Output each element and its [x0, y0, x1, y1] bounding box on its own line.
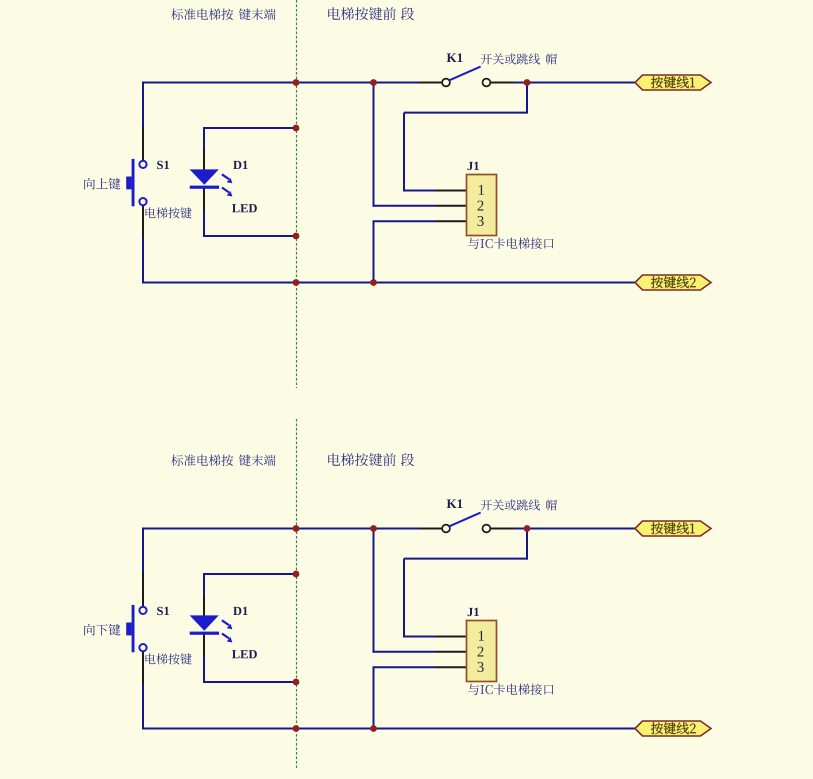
wire pin3 to bottom rail vertical [373, 667, 375, 728]
switch S1 pin stub top [142, 572, 144, 607]
label K1 [447, 53, 463, 62]
switch K1 blade [449, 513, 480, 527]
switch S1 pin stub bottom [142, 651, 144, 684]
connector J1 pin number 1 [479, 185, 484, 195]
switch K1 pin stub right [490, 82, 514, 84]
label LED [232, 650, 257, 658]
wire LED branch top horizontal [203, 573, 297, 575]
wire top rail left segment [142, 528, 420, 530]
connector J1 body [467, 621, 497, 682]
wire LED branch bottom vertical [203, 656, 205, 683]
wire J1 pin2 horizontal [373, 205, 437, 207]
switch S1 plunger [126, 177, 131, 190]
junction top rail at boundary [293, 525, 300, 532]
port 按键线2 [635, 275, 711, 290]
label J1 [468, 608, 479, 616]
junction top rail / pin2 branch [370, 525, 377, 532]
port 按键线2 text [651, 276, 696, 288]
wire J1 pin3 horizontal [373, 220, 437, 222]
wire K1 to J1 horizontal [404, 112, 528, 114]
LED D1 emission arrow 2 [222, 634, 233, 643]
switch S1 top contact circle [139, 161, 146, 168]
junction top rail / K1 output [524, 79, 531, 86]
connector J1 pin number 3 [478, 216, 484, 226]
label 电梯按键 [146, 653, 192, 664]
connector J1 body [467, 175, 497, 236]
connector J1 pin 1 stub [436, 190, 466, 192]
LED D1 anode pin stub [203, 149, 205, 170]
label 电梯按键 [146, 207, 192, 218]
junction LED branch top at boundary [293, 571, 300, 578]
connector J1 pin 2 stub [436, 651, 466, 653]
LED D1 emission arrow 2 [222, 188, 233, 197]
junction bottom rail at boundary [293, 279, 300, 286]
connector J1 pin number 2 [477, 647, 483, 657]
switch S1 bottom contact circle [139, 198, 146, 205]
LED D1 emission arrow 1 [222, 174, 233, 183]
junction LED branch top at boundary [293, 125, 300, 132]
wire bottom rail [142, 728, 636, 730]
wire LED branch top horizontal [203, 127, 297, 129]
wire J1 pin3 horizontal [373, 666, 437, 668]
net label 电梯按键前段 (sheet top) [328, 7, 396, 20]
switch K1 right contact circle [483, 525, 491, 533]
switch K1 pin stub left [420, 82, 442, 84]
switch S1 bottom contact circle [139, 644, 146, 651]
connector J1 pin 1 stub [436, 636, 466, 638]
label LED [232, 204, 257, 212]
net label 标准电梯按键末端 (sheet bottom) [171, 454, 233, 466]
switch K1 pin stub left [420, 528, 442, 530]
wire K1 to J1 vertical drop [526, 529, 528, 560]
label D1 [233, 607, 247, 615]
net label 电梯按键前段 (sheet bottom) [328, 453, 396, 466]
connector J1 pin number 2 [477, 201, 483, 211]
junction bottom rail / pin3 branch [370, 725, 377, 732]
junction top rail / pin2 branch [370, 79, 377, 86]
wire pin3 to bottom rail vertical [373, 221, 375, 282]
port 按键线1 text [651, 522, 695, 534]
junction bottom rail / pin3 branch [370, 279, 377, 286]
switch K1 right contact circle [483, 79, 491, 87]
wire K1 to J1 horizontal [404, 558, 528, 560]
wire J1 pin2 horizontal [373, 651, 437, 653]
LED D1 emission arrow 1 [222, 620, 233, 629]
junction top rail at boundary [293, 79, 300, 86]
junction top rail / K1 output [524, 525, 531, 532]
junction bottom rail at boundary [293, 725, 300, 732]
LED D1 cathode pin stub [203, 634, 205, 656]
wire top rail to pin2 vertical [373, 529, 375, 653]
switch S1 top contact circle [139, 607, 146, 614]
LED D1 cathode bar [190, 186, 219, 189]
wire J1 pin1 horizontal [404, 190, 436, 192]
wire J1 pin1 horizontal [404, 636, 436, 638]
LED D1 triangle [190, 169, 219, 184]
switch K1 pin stub right [490, 528, 514, 530]
net label 标准电梯按键末端 (sheet top) [171, 8, 233, 20]
label J1 [468, 162, 479, 170]
wire LED branch top vertical [203, 573, 205, 595]
wire left vertical upper [142, 528, 144, 573]
wire bottom rail [142, 282, 636, 284]
switch S1 actuator bar [132, 159, 135, 206]
wire top rail left segment [142, 82, 420, 84]
wire top rail right segment [514, 528, 636, 530]
wire LED branch bottom vertical [203, 210, 205, 237]
port 按键线2 text [651, 722, 696, 734]
wire top rail to pin2 vertical [373, 83, 375, 207]
label K1 [447, 499, 463, 508]
switch K1 blade [449, 67, 480, 81]
wire left vertical lower [142, 238, 144, 283]
wire left vertical lower [142, 684, 144, 729]
LED D1 triangle [190, 615, 219, 630]
wire left vertical upper [142, 82, 144, 127]
connector J1 pin 2 stub [436, 205, 466, 207]
connector J1 pin number 1 [479, 631, 484, 641]
LED D1 cathode bar [190, 632, 219, 635]
switch S1 plunger [126, 623, 131, 636]
label 向上键 [84, 178, 120, 190]
label S1 [157, 607, 169, 615]
switch S1 actuator bar [132, 605, 135, 652]
wire LED branch top vertical [203, 127, 205, 149]
port 按键线1 text [651, 76, 695, 88]
junction LED branch bottom at boundary [293, 679, 300, 686]
wire J1 pin1 vertical [403, 113, 405, 192]
junction LED branch bottom at boundary [293, 233, 300, 240]
wire LED branch bottom horizontal [203, 235, 297, 237]
label 与IC卡电梯接口 [468, 238, 553, 249]
boundary dashed line (top sheet) [296, 0, 298, 388]
wire LED branch bottom horizontal [203, 681, 297, 683]
wire K1 to J1 vertical drop [526, 83, 528, 114]
port 按键线2 [635, 721, 711, 736]
connector J1 pin 3 stub [436, 666, 466, 668]
label 开关或跳线 帽 [481, 499, 540, 510]
switch K1 left contact circle [442, 79, 450, 87]
port 按键线1 [635, 75, 711, 90]
label D1 [233, 161, 247, 169]
wire top rail right segment [514, 82, 636, 84]
label 开关或跳线 帽 [481, 53, 540, 64]
connector J1 pin 3 stub [436, 220, 466, 222]
port 按键线1 [635, 521, 711, 536]
boundary dashed line (bottom sheet) [296, 419, 298, 768]
wire J1 pin1 vertical [403, 559, 405, 638]
label S1 [157, 161, 169, 169]
LED D1 cathode pin stub [203, 188, 205, 210]
LED D1 anode pin stub [203, 595, 205, 616]
switch S1 pin stub top [142, 126, 144, 161]
switch S1 pin stub bottom [142, 205, 144, 238]
connector J1 pin number 3 [478, 662, 484, 672]
label 与IC卡电梯接口 [468, 684, 553, 695]
label 向下键 [84, 624, 120, 636]
switch K1 left contact circle [442, 525, 450, 533]
